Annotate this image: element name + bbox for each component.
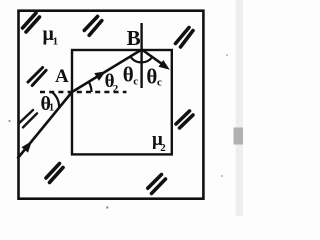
svg-text:1: 1 [49, 102, 55, 114]
svg-text:c: c [133, 76, 138, 88]
svg-text:A: A [55, 66, 69, 87]
svg-text:2: 2 [113, 83, 119, 95]
svg-text:B: B [127, 26, 141, 50]
svg-text:c: c [157, 77, 162, 89]
svg-text:2: 2 [160, 142, 166, 154]
svg-text:1: 1 [53, 36, 59, 48]
svg-text:θ: θ [146, 65, 157, 89]
svg-text:θ: θ [123, 63, 134, 87]
